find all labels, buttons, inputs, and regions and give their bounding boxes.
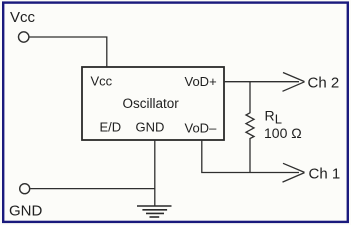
svg-text:VoD–: VoD– xyxy=(185,121,218,136)
arrow Ch 1 xyxy=(283,163,305,182)
wire GND terminal to ground stem xyxy=(30,188,155,190)
svg-text:Ch 1: Ch 1 xyxy=(309,166,341,183)
svg-text:VoD+: VoD+ xyxy=(185,74,217,89)
wire VoD- to Ch 1 xyxy=(202,140,299,173)
svg-text:GND: GND xyxy=(9,202,43,219)
wire VoD+ to Ch 2 xyxy=(224,81,299,83)
label RL xyxy=(265,108,283,127)
resistor RL xyxy=(246,82,254,173)
svg-text:Vcc: Vcc xyxy=(91,74,113,89)
oscillator U1 xyxy=(82,67,224,140)
svg-text:E/D: E/D xyxy=(100,120,122,135)
arrow Ch 2 xyxy=(283,73,305,92)
svg-text:GND: GND xyxy=(136,120,165,135)
svg-text:Ch 2: Ch 2 xyxy=(308,75,340,92)
terminal GND xyxy=(20,184,30,194)
svg-text:Vcc: Vcc xyxy=(10,9,36,26)
wire Vcc terminal to oscillator Vcc pin xyxy=(29,37,107,67)
wire oscillator GND pin down to ground xyxy=(154,140,156,206)
svg-text:Oscillator: Oscillator xyxy=(123,96,180,111)
ground xyxy=(137,206,172,217)
svg-text:100 Ω: 100 Ω xyxy=(264,125,302,141)
svg-text:R: R xyxy=(265,108,275,124)
terminal Vcc xyxy=(19,32,29,42)
